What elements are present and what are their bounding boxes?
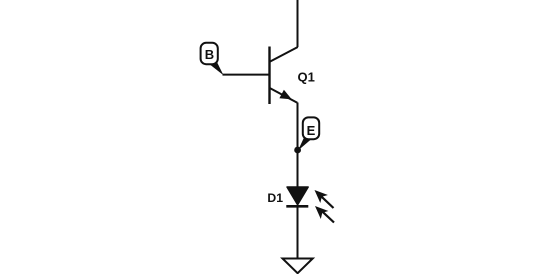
wire emitter	[297, 103, 299, 189]
transistor Q1	[270, 47, 298, 105]
wire cathode to ground	[297, 206, 299, 258]
svg-text:Q1: Q1	[298, 69, 315, 84]
wire base	[223, 74, 271, 76]
svg-text:B: B	[205, 47, 214, 62]
LED D1	[286, 187, 334, 223]
svg-text:D1: D1	[267, 191, 283, 205]
label Q1	[298, 69, 315, 84]
wire collector top	[297, 0, 299, 47]
node E (emitter callout)	[294, 117, 319, 153]
node B (base callout)	[201, 43, 224, 75]
svg-text:E: E	[307, 123, 316, 138]
ground	[283, 259, 313, 274]
label D1	[267, 191, 283, 205]
